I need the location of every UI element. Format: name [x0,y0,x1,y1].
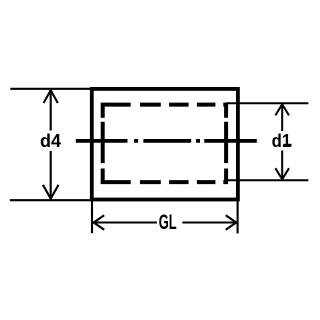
svg-text:d4: d4 [40,131,62,151]
svg-text:GL: GL [159,210,177,234]
svg-text:d1: d1 [272,131,292,151]
